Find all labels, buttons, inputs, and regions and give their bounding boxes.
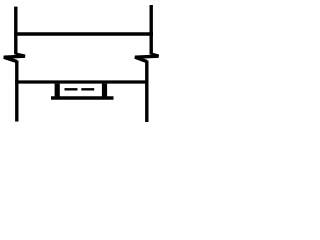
right lower support line [145, 61, 148, 123]
left break symbol [4, 54, 25, 61]
right break symbol [135, 54, 159, 61]
top beam line [14, 32, 153, 36]
left upper support line [14, 7, 17, 55]
hidden dashed centerline [65, 88, 95, 90]
left lower support line [15, 61, 18, 122]
right upper support line [149, 5, 152, 55]
box bottom line [51, 96, 114, 100]
lower beam line [15, 80, 148, 83]
box right end bar [102, 84, 107, 97]
box left end bar [55, 84, 60, 97]
